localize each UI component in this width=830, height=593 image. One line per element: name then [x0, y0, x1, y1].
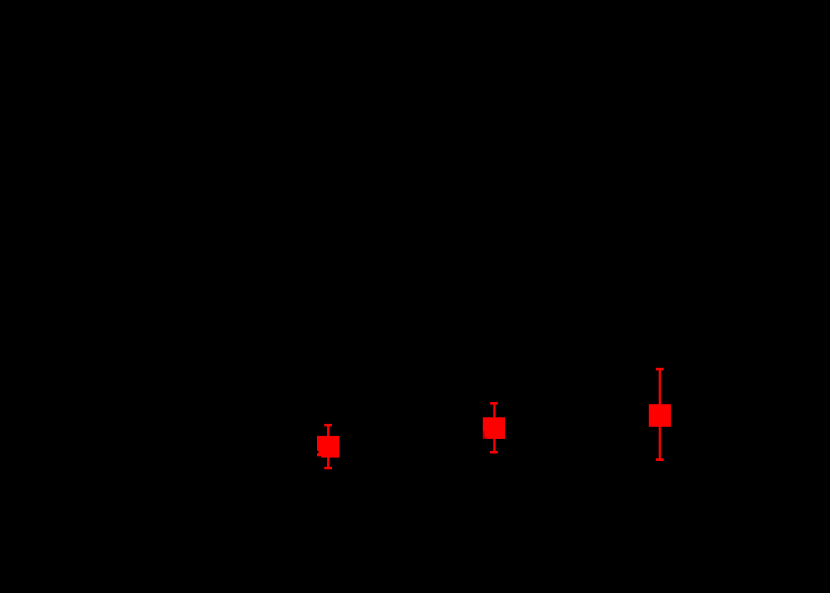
- marker square for point 1: [317, 436, 339, 458]
- marker square for point 2: [483, 417, 505, 439]
- black overlap notch on point 1: [317, 451, 321, 458]
- error bar for point 3: [656, 368, 664, 461]
- error bar for point 2: [490, 402, 498, 453]
- dark overlap notch on point 2: [483, 431, 485, 438]
- error bar for point 1: [324, 424, 332, 469]
- marker square for point 3: [649, 404, 671, 427]
